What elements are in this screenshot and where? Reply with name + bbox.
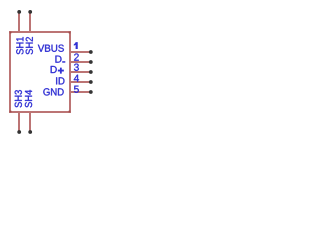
pin 2 wire (D-) bbox=[71, 61, 89, 63]
pin 3 unconnected end dot bbox=[89, 70, 93, 74]
pin 1 wire (VBUS) bbox=[71, 51, 89, 53]
pin name ID bbox=[56, 77, 64, 84]
pin name VBUS bbox=[38, 45, 64, 52]
pin 1 unconnected end dot bbox=[89, 50, 93, 54]
body corner joints (denser ink) bbox=[10, 32, 12, 34]
pin name SH1 (rotated) bbox=[16, 37, 23, 54]
pin number 2 bbox=[74, 53, 79, 60]
pin number 5 bbox=[74, 86, 79, 93]
pin name SH2 (rotated) bbox=[26, 37, 33, 54]
pin number 4 bbox=[74, 75, 79, 82]
pin 4 unconnected end dot bbox=[89, 80, 93, 84]
pin SH1 wire (top) bbox=[18, 12, 20, 32]
pin name SH3 (rotated) bbox=[15, 90, 22, 107]
pin SH2 unconnected end dot bbox=[28, 10, 32, 14]
pin name D- bbox=[55, 56, 61, 63]
pin name D+ bbox=[51, 66, 57, 73]
pin SH2 wire (top) bbox=[29, 12, 31, 32]
pin 5 wire (GND) bbox=[71, 91, 89, 93]
pin SH4 wire (bottom) bbox=[29, 113, 31, 132]
pin 3 wire (D+) bbox=[71, 71, 89, 73]
pin number 3 bbox=[74, 64, 79, 71]
pin SH3 unconnected end dot bbox=[17, 130, 21, 134]
pin 5 unconnected end dot bbox=[89, 90, 93, 94]
pin name SH4 (rotated) bbox=[25, 90, 32, 108]
pin name GND bbox=[43, 88, 63, 95]
connector body J1 outline bbox=[10, 32, 70, 112]
pin 2 unconnected end dot bbox=[89, 60, 93, 64]
pin SH1 unconnected end dot bbox=[17, 10, 21, 14]
pin SH3 wire (bottom) bbox=[18, 113, 20, 132]
pin number 1 bbox=[74, 42, 78, 49]
pin SH4 unconnected end dot bbox=[28, 130, 32, 134]
pin 4 wire (ID) bbox=[71, 81, 89, 83]
